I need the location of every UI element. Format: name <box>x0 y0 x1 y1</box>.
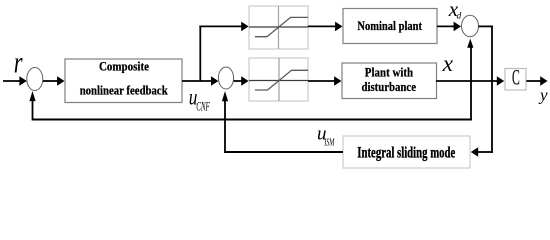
wire Plant output x to C block <box>436 76 504 86</box>
wire feedback x to S1 <box>29 91 472 120</box>
svg-text:d: d <box>457 12 462 22</box>
svg-text:C: C <box>512 64 520 89</box>
svg-text:Composite: Composite <box>99 60 149 74</box>
wire x branch up into S3 <box>467 39 473 120</box>
wire S1 to CNF block <box>43 76 65 86</box>
wire ISM output u_ISM to S2 <box>222 91 343 153</box>
summing junction S1 <box>27 68 43 91</box>
wire SAT1 to Nominal plant <box>308 22 343 32</box>
svg-text:r: r <box>14 45 23 79</box>
wire S2 to saturation SAT2 <box>234 76 249 86</box>
block Plant with disturbance <box>342 63 437 99</box>
summing junction S3 <box>462 15 479 36</box>
svg-text:Integral sliding mode: Integral sliding mode <box>357 145 455 162</box>
wire Nominal plant to S3 with node x_d <box>437 22 461 32</box>
summing junction S2 <box>218 67 233 89</box>
wire CNF block to S2 <box>182 76 218 86</box>
svg-text:Nominal plant: Nominal plant <box>357 19 422 33</box>
block Integral sliding mode <box>343 136 470 168</box>
block Composite nonlinear feedback <box>65 59 182 103</box>
wire S3 output to ISM block <box>471 26 493 157</box>
node x_d label <box>448 0 462 22</box>
block C <box>505 64 526 90</box>
block Nominal plant <box>343 9 437 44</box>
svg-text:disturbance: disturbance <box>362 79 417 94</box>
svg-text:ISM: ISM <box>324 137 336 148</box>
wire SAT2 to Plant with disturbance <box>308 76 342 86</box>
svg-text:Plant with: Plant with <box>365 65 414 80</box>
svg-text:y: y <box>538 85 548 104</box>
saturation block SAT2 <box>249 58 308 101</box>
wire r input <box>3 76 27 86</box>
svg-text:CNF: CNF <box>196 99 210 114</box>
wire branch up to saturation SAT1 <box>199 22 248 81</box>
node u_CNF label <box>189 85 211 113</box>
saturation block SAT1 <box>249 6 308 49</box>
svg-text:nonlinear feedback: nonlinear feedback <box>80 83 169 98</box>
svg-text:x: x <box>442 51 454 76</box>
wire C output y <box>526 76 547 86</box>
node u_ISM label <box>317 124 335 149</box>
